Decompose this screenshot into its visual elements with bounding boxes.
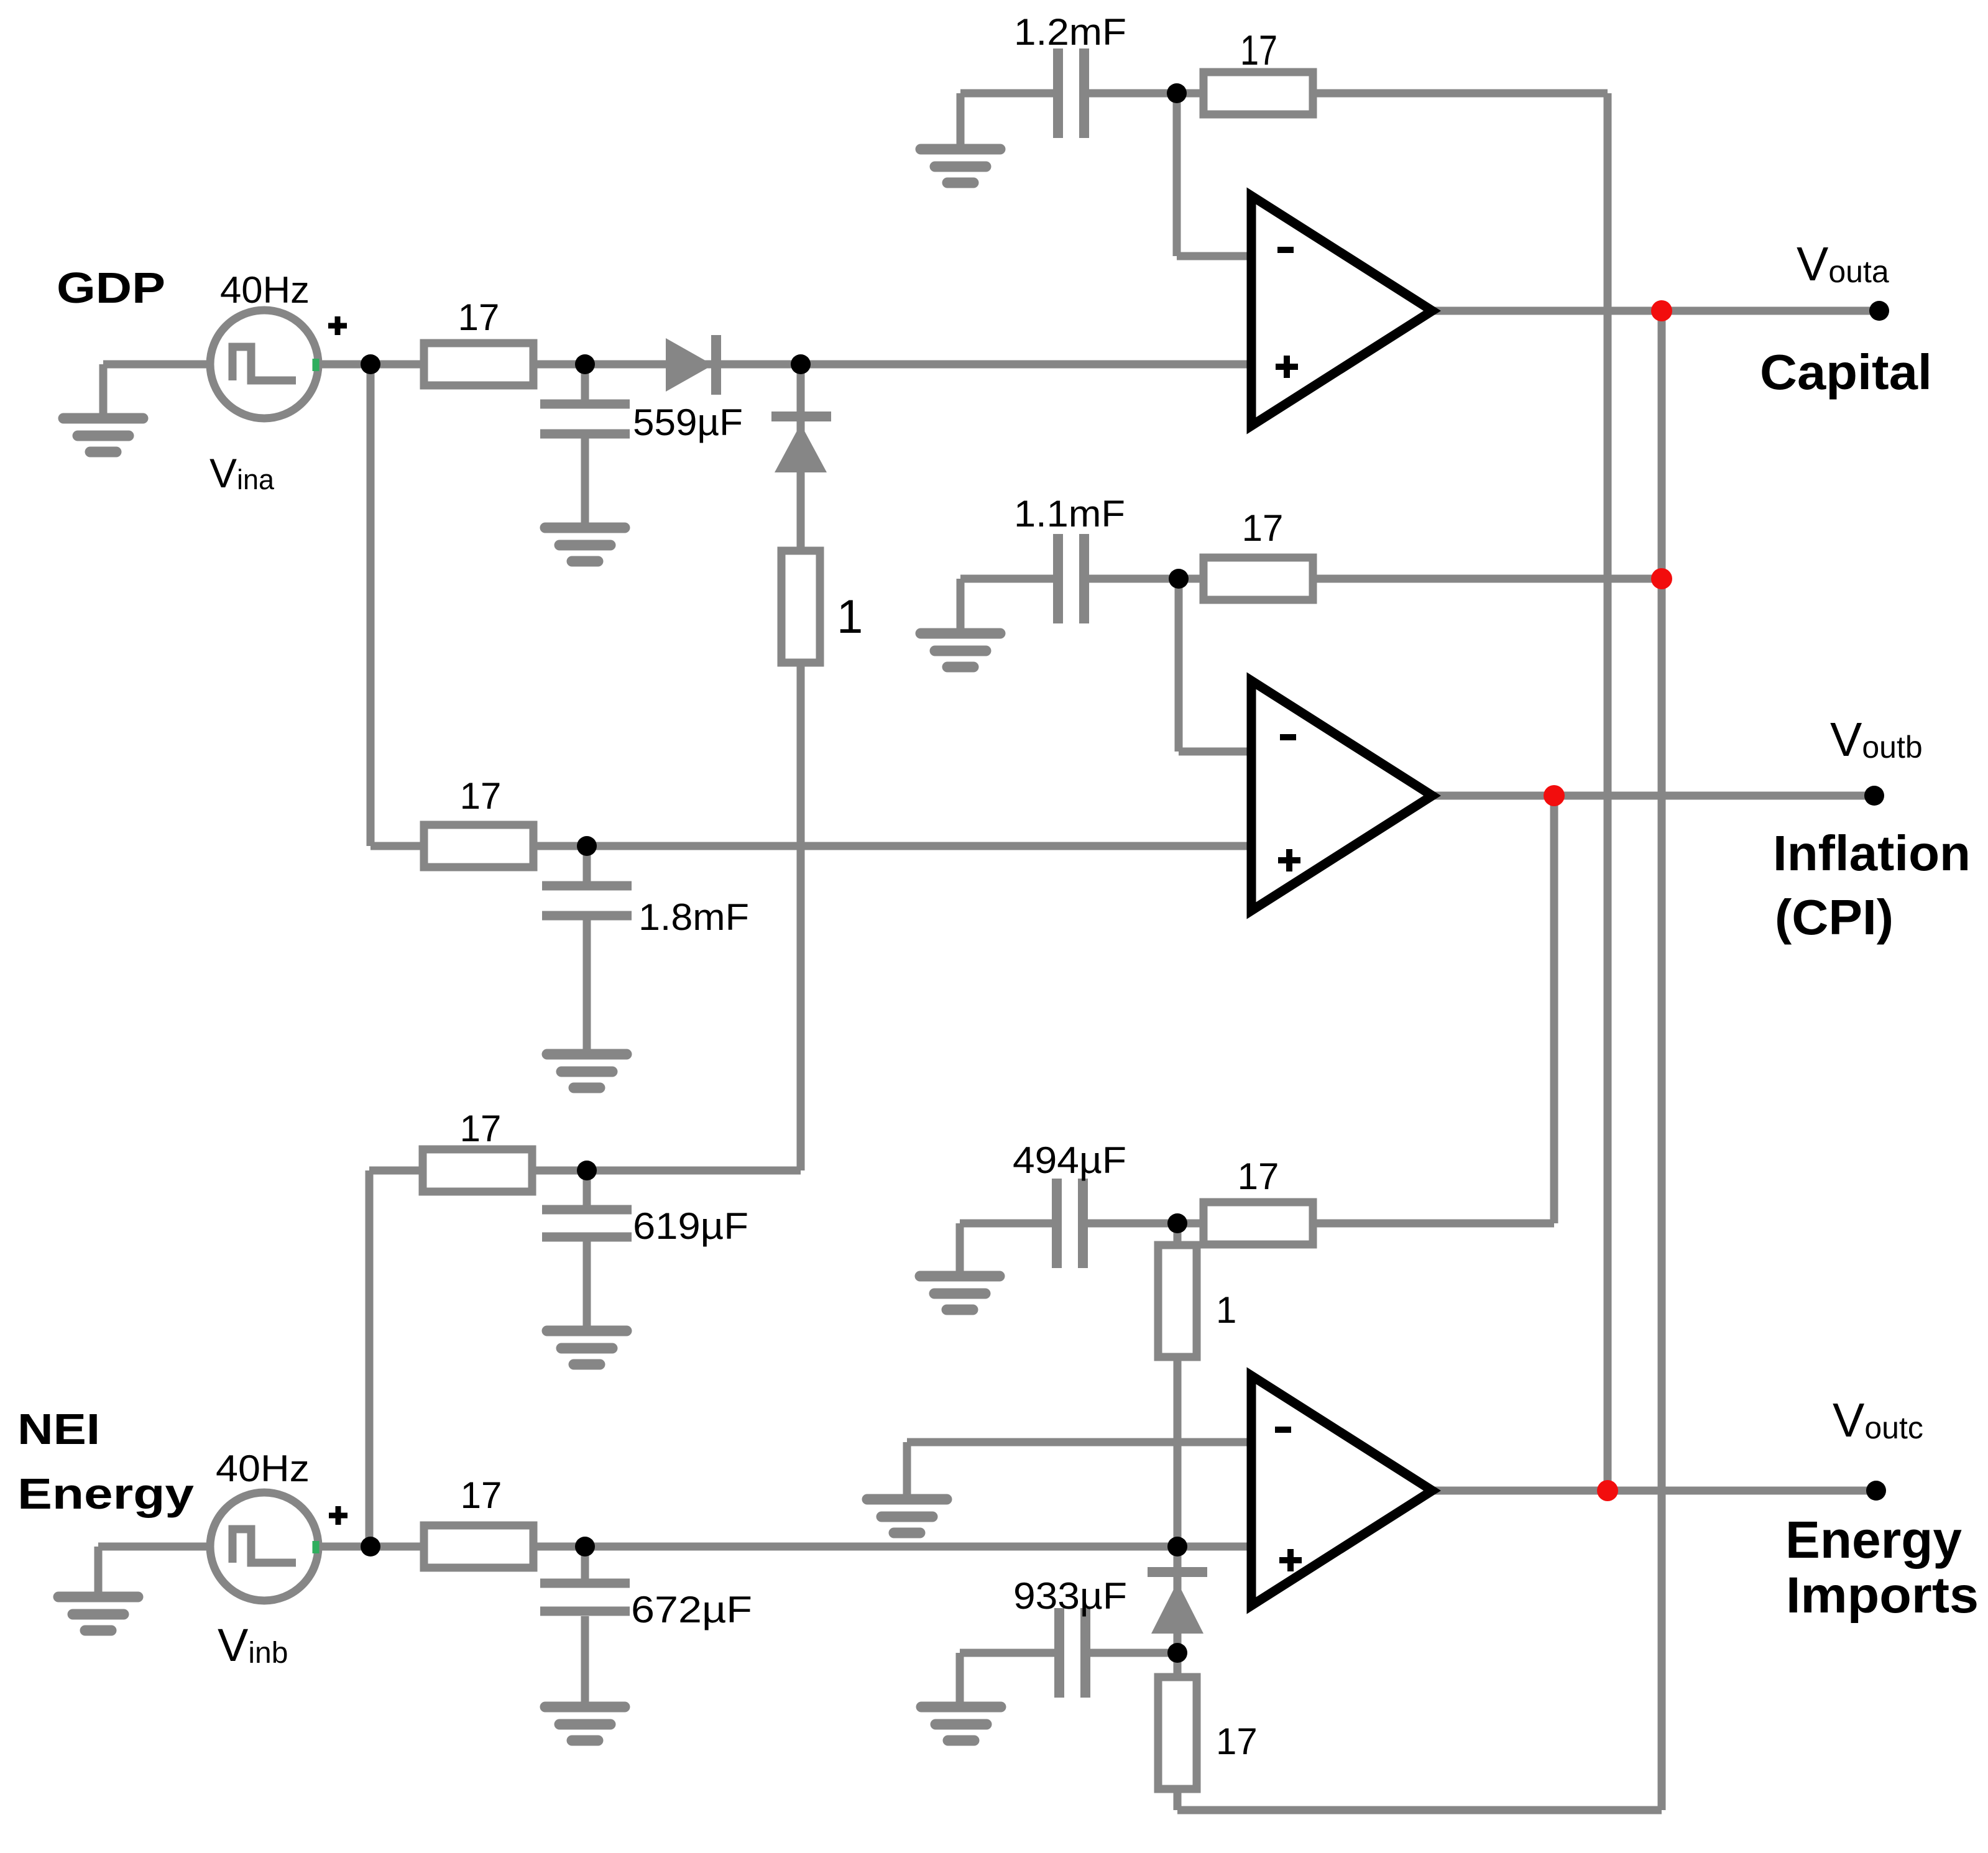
svg-text:1.1mF: 1.1mF	[1014, 493, 1125, 535]
svg-text:17: 17	[460, 1108, 502, 1149]
svg-text:1.8mF: 1.8mF	[638, 896, 749, 938]
svg-text:672µF: 672µF	[631, 1589, 752, 1630]
svg-text:1: 1	[1216, 1289, 1236, 1331]
svg-text:17: 17	[458, 297, 500, 338]
svg-text:494µF: 494µF	[1013, 1139, 1126, 1181]
svg-text:(CPI): (CPI)	[1775, 890, 1894, 945]
svg-text:17: 17	[1216, 1721, 1258, 1762]
svg-text:Capital: Capital	[1760, 344, 1932, 400]
svg-text:NEI: NEI	[17, 1405, 100, 1453]
svg-text:40Hz: 40Hz	[216, 1448, 310, 1489]
svg-text:17: 17	[461, 1474, 502, 1516]
svg-text:40Hz: 40Hz	[220, 269, 310, 311]
svg-text:Energy: Energy	[17, 1469, 194, 1518]
svg-text:17: 17	[1238, 1156, 1279, 1197]
svg-text:619µF: 619µF	[633, 1205, 748, 1247]
svg-text:559µF: 559µF	[633, 402, 743, 443]
svg-text:Inflation: Inflation	[1773, 825, 1971, 881]
svg-text:1: 1	[837, 591, 863, 643]
svg-text:GDP: GDP	[57, 264, 165, 312]
svg-text:Energy: Energy	[1785, 1510, 1962, 1569]
svg-text:17: 17	[460, 775, 502, 817]
svg-text:1.2mF: 1.2mF	[1014, 11, 1126, 53]
svg-text:Imports: Imports	[1786, 1567, 1979, 1624]
svg-text:933µF: 933µF	[1013, 1575, 1127, 1617]
svg-text:17: 17	[1240, 27, 1277, 74]
svg-text:17: 17	[1242, 507, 1284, 549]
